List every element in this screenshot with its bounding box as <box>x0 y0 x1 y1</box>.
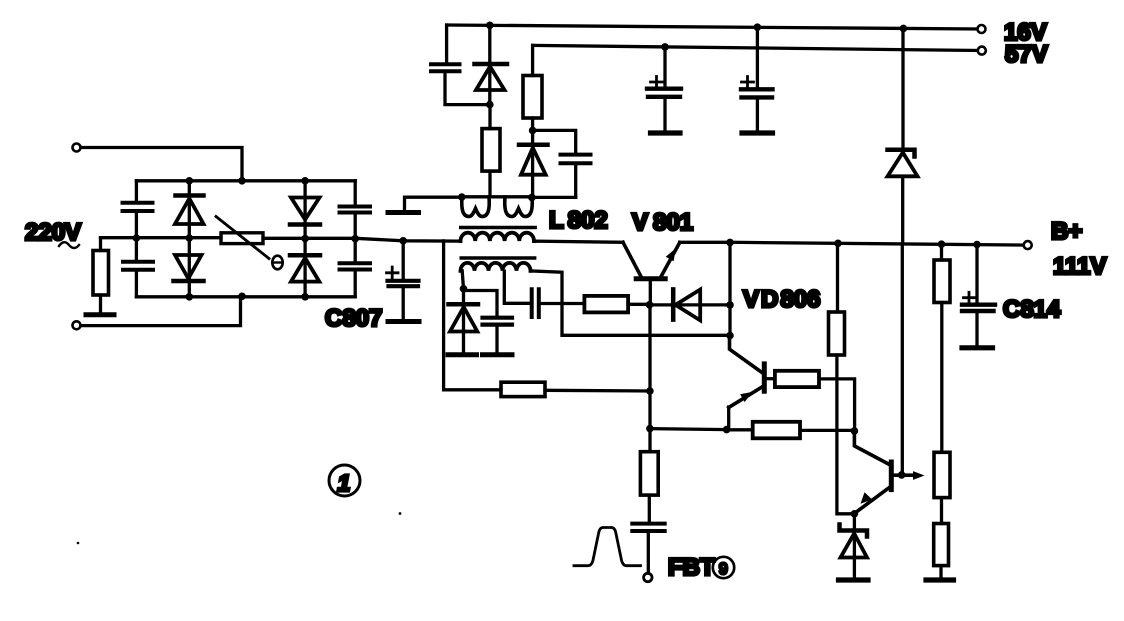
svg-text:57V: 57V <box>1005 41 1048 68</box>
capacitor A plus sign <box>651 77 663 89</box>
potentiometer body <box>934 452 950 497</box>
wire pot to lower resistor <box>940 498 943 524</box>
wire snubber cap bottom corner <box>445 73 488 105</box>
wire cap to terminal <box>647 532 650 573</box>
junction dots bridge <box>238 177 246 185</box>
wire rail winding to V801 collector <box>534 241 623 242</box>
diode VD806 bar <box>671 289 676 319</box>
wire resistor to winding <box>488 171 491 195</box>
wire V802 emitter down <box>727 407 730 429</box>
junction dot lower rail emitter <box>723 426 731 434</box>
resistor FBT branch <box>640 452 658 495</box>
svg-text:9: 9 <box>719 561 728 578</box>
ground bar C814 <box>962 345 993 350</box>
wire 16V to snubber diode <box>488 25 491 104</box>
wire B+ rail <box>730 242 1026 245</box>
wire aux cap to ground <box>495 326 498 353</box>
capacitor bridge left upper <box>123 203 153 211</box>
svg-text:VD806: VD806 <box>743 286 820 313</box>
junction dot 57V at cap A <box>661 43 669 51</box>
wire base node to VD806 <box>650 303 731 306</box>
junction dot lower rail left <box>646 425 654 433</box>
speck <box>399 512 402 515</box>
transistor V802 base bar <box>762 364 767 391</box>
wire coupling cap to resistor <box>541 302 585 305</box>
AC tilde under V <box>59 242 79 248</box>
wire C814 branch <box>975 245 978 304</box>
wire 16V rail <box>447 25 980 29</box>
terminal FBT <box>644 573 652 581</box>
resistor V802 base <box>775 371 819 387</box>
wire damper node to diode <box>531 130 534 195</box>
svg-text:V801: V801 <box>632 209 693 236</box>
junction dot 730 top <box>726 239 734 247</box>
wire C807 bottom <box>402 288 405 320</box>
wire resistor to ground <box>99 295 102 313</box>
capacitor A plates <box>647 89 681 97</box>
wire 838 resistor down to emitter corner <box>837 355 855 514</box>
capacitor coupling (vertical plates) <box>532 289 539 317</box>
ground bar below input resistor <box>86 312 114 317</box>
wire third winding left end down <box>462 271 463 289</box>
transistor V803 collector diagonal <box>854 432 890 465</box>
wire V801 emitter to B+ node <box>680 241 730 244</box>
label theta <box>272 256 282 270</box>
junction dot rectifier node <box>460 285 468 293</box>
wire between resistor and pot <box>940 303 943 453</box>
wire top input to bridge <box>81 148 242 181</box>
wire V803 base to pot wiper arrow <box>894 473 918 477</box>
capacitor bridge right lower <box>340 263 371 269</box>
transistor V801 base bar <box>636 276 665 281</box>
zener VD lower bar with hooks <box>840 525 868 537</box>
svg-text:C814: C814 <box>1003 296 1061 323</box>
capacitor C807 plus sign <box>387 267 399 279</box>
wire third winding tap down to coupling cap <box>504 271 529 303</box>
zener VD lower triangle (points up) <box>841 534 868 558</box>
resistor branch 838 <box>829 312 845 355</box>
diode bridge D2 (points down) <box>175 255 202 279</box>
ground bar below aux diode <box>448 352 477 357</box>
wire bridge left column <box>135 181 138 297</box>
wire feedback left vertical <box>444 241 501 390</box>
wire cap B branch <box>756 27 759 87</box>
junction dot B+ at 941 <box>938 240 946 248</box>
diode bridge D4 (points up) <box>290 253 320 258</box>
wire C814 to ground <box>975 312 978 346</box>
junction dot emitter-zener node <box>851 510 859 518</box>
junction dot feedback left <box>646 387 654 395</box>
wire lower rail to resistor <box>727 428 753 431</box>
symbol circled 1 <box>329 465 360 496</box>
transistor V802 emitter diagonal with arrow (PNP) <box>729 386 764 407</box>
wire V802 base to resistor <box>766 377 775 380</box>
wire V801 base column to feedback nodes <box>648 306 651 429</box>
ground bar below aux cap <box>483 352 513 357</box>
resistor damper vertical <box>523 76 542 119</box>
ground bar cap A <box>651 130 681 135</box>
wire feedback resistor to base node <box>545 389 650 393</box>
diode rectifier aux (points up) <box>449 302 479 307</box>
wire top winding right to snubber <box>532 196 576 199</box>
junction dot 730 bottom <box>726 332 734 340</box>
junction dot 730 mid <box>726 301 734 309</box>
inductor L802 top winding (lobes down) <box>462 195 533 198</box>
diode bridge D3 (points down) <box>291 198 320 220</box>
wire tall branch 16V down to zener <box>901 28 904 147</box>
junction dot damper node <box>529 127 537 135</box>
wire branch 838 down <box>836 243 839 312</box>
inductor L802 third winding (lobes up) <box>461 263 531 271</box>
wire node to diode <box>462 291 465 353</box>
svg-text:111V: 111V <box>1053 253 1106 280</box>
capacitor aux filter plates <box>483 318 513 325</box>
wire V801 base down <box>649 281 652 305</box>
wire damper node across to cap branch <box>533 130 576 153</box>
thermistor body <box>221 233 263 244</box>
wire third winding right end over and down <box>531 271 731 335</box>
transistor V803 emitter diagonal with arrow <box>856 487 890 512</box>
diode damper (points up) <box>519 143 548 148</box>
junction dot C807 at rail <box>399 237 407 245</box>
wire damper cap down to winding wire <box>574 165 577 198</box>
wire cap B to ground <box>756 99 759 131</box>
thermistor strike line <box>216 217 269 259</box>
capacitor bridge left lower <box>123 262 153 270</box>
wire bridge right column <box>354 181 357 297</box>
junction dot top winding left <box>458 193 466 201</box>
wire bottom input to bridge <box>81 297 241 326</box>
wire node to resistor <box>488 105 491 129</box>
wire node to parallel cap <box>464 291 498 317</box>
wire cap A branch <box>663 47 666 87</box>
diode snubber (points up) <box>475 62 508 67</box>
ground bar C807 <box>388 319 419 324</box>
wire resistor to base node <box>628 303 649 306</box>
junction dot top winding right <box>528 194 536 202</box>
resistor upper right column <box>934 260 950 303</box>
junction dot 16V at tall branch <box>900 25 908 33</box>
capacitor FBT plates <box>632 524 664 531</box>
wire vertical node column x730 <box>728 242 731 336</box>
svg-text:B+: B+ <box>1051 218 1082 245</box>
terminal B+ <box>1024 241 1032 249</box>
wire mains mid rail left <box>101 236 222 239</box>
speck bottom-left <box>77 542 80 545</box>
resistor base drive <box>584 296 628 313</box>
wire lower horizontal 650-727 <box>650 429 727 430</box>
capacitor C814 plus sign <box>964 292 976 303</box>
wire resistor to cap <box>648 495 651 522</box>
wire mid rail thermistor to L802 <box>263 238 536 241</box>
wire resistor to node 854 <box>800 429 854 432</box>
capacitor snubber plates <box>431 64 460 71</box>
wire base column to resistor <box>648 429 651 452</box>
junction dot snubber top <box>486 22 494 30</box>
diode VD806 triangle (points left) <box>676 290 701 321</box>
svg-text:L802: L802 <box>549 207 608 234</box>
svg-text:FBT: FBT <box>668 554 715 581</box>
terminal AC input bottom <box>73 321 81 329</box>
junction dot V803 base at 902 <box>898 471 906 479</box>
transistor V803 base bar <box>889 462 894 490</box>
wire damper resistor to node <box>531 118 534 130</box>
capacitor C814 plates <box>962 305 995 311</box>
wire lower resistor to ground <box>939 566 942 578</box>
node mid-left corner <box>99 238 102 251</box>
wire C807 top <box>402 241 405 279</box>
wire stub to top winding <box>405 197 461 209</box>
svg-text:220V: 220V <box>25 219 81 246</box>
wire bridge diode column 2 <box>303 181 306 297</box>
wire emitter node to zener <box>853 514 856 577</box>
resistor lower rail <box>753 422 800 439</box>
wire zener to B+ rail and down to V803 base <box>901 176 905 475</box>
svg-text:1: 1 <box>338 470 351 496</box>
transistor V802 collector from node 730 <box>730 336 763 373</box>
junction dot snubber mid <box>486 101 494 109</box>
terminal 16V <box>978 25 986 33</box>
capacitor damper plates <box>561 155 591 164</box>
junction dot B+ at C814 <box>973 241 981 249</box>
ground bar right column <box>926 577 954 582</box>
wire 57V corner to damper resistor <box>531 45 534 75</box>
resistor lower right column <box>934 524 949 566</box>
capacitor B plus sign <box>742 77 754 89</box>
junction dot 16V at cap B <box>754 23 762 31</box>
wire branch 941 down <box>940 244 943 260</box>
wire base resistor bend down to node <box>819 379 855 431</box>
junction dot node 854 <box>851 427 859 435</box>
resistor line input <box>93 251 109 296</box>
terminal 57V <box>978 47 986 55</box>
ground bar cap B <box>742 130 773 135</box>
transistor V801 collector diagonal <box>623 242 642 277</box>
junction dot B+ at 838 <box>834 240 842 248</box>
capacitor C807 plates <box>388 281 419 286</box>
wire bridge diode column 1 <box>188 181 191 297</box>
terminal AC input top <box>73 144 81 152</box>
ground bar zener <box>839 577 869 582</box>
wire cap A to ground <box>663 98 666 131</box>
junction dot base node <box>646 301 654 309</box>
wire bridge top rail <box>136 179 355 182</box>
resistor feedback <box>501 382 545 396</box>
svg-text:C807: C807 <box>325 305 382 332</box>
capacitor B plates <box>741 89 773 97</box>
capacitor bridge right upper <box>340 207 371 213</box>
inductor L802 middle winding on rail (lobes up) <box>461 233 535 241</box>
stub bar left of L802 <box>388 210 419 215</box>
core bar upper <box>461 226 535 230</box>
transistor V801 emitter diagonal with arrow <box>661 243 680 278</box>
wire snubber left branch <box>445 25 448 63</box>
resistor snubber vertical <box>482 129 500 172</box>
wire 57V rail <box>533 45 980 50</box>
core bar lower <box>461 256 534 260</box>
wire bridge bottom rail <box>136 295 355 298</box>
zener top (points up, hooked bar) <box>888 150 915 157</box>
waveform pulse symbol <box>574 528 641 566</box>
diode bridge D1 (points up) <box>176 193 204 198</box>
